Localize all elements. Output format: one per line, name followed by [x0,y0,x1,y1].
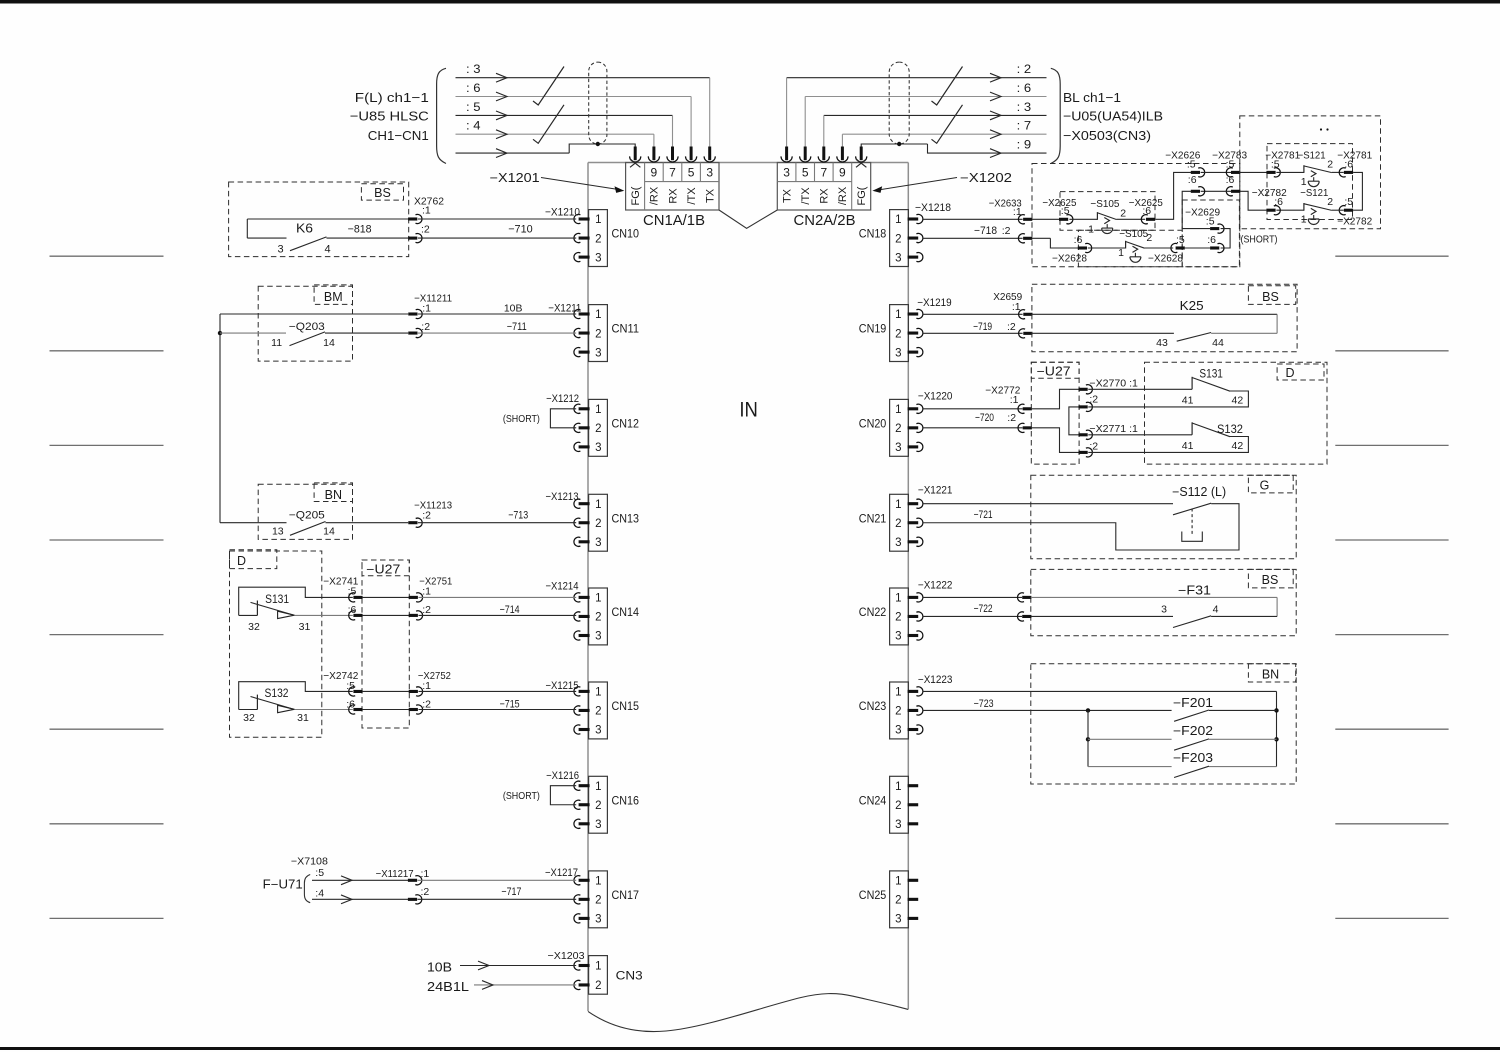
Q205 contact blade [290,522,326,536]
svg-text:BL ch1−1: BL ch1−1 [1063,90,1121,105]
wire X2771.1 to S132r [1088,434,1192,436]
CN14 pin sockets [574,593,580,602]
svg-text:−X1212: −X1212 [546,393,579,405]
junction dots right bus [1274,708,1278,712]
S132 actuator triangle [278,705,295,712]
U27 internal jog pin2 [1032,428,1079,453]
connector X2782:5 [1339,206,1345,215]
svg-text::6: :6 [346,699,355,711]
svg-text::5: :5 [1226,159,1235,171]
K25 top wire [1032,313,1277,315]
svg-text:CN13: CN13 [612,513,640,525]
wire F203 feed [1088,766,1172,768]
CN1A top pins (plug and socket) [634,147,637,161]
wire X7108.4 to X11217 [312,898,408,900]
svg-text:2: 2 [595,895,601,907]
svg-text:−X1219: −X1219 [917,297,952,309]
svg-text::2: :2 [422,604,431,616]
connector X2762 exit pins [408,217,417,220]
wire K6 to CN10.1 [418,218,576,220]
inner frame X2628 [1078,230,1182,267]
svg-text:−S121: −S121 [1300,187,1328,199]
svg-text:2: 2 [895,518,901,530]
left twisted pair mark 1 [533,67,564,106]
svg-text:2: 2 [1327,159,1333,171]
svg-text:−Q205: −Q205 [289,510,325,522]
svg-text:−X1210: −X1210 [545,207,580,219]
wire -715 to CN15.2 [419,709,577,711]
svg-text::5: :5 [1271,159,1280,171]
svg-text:CN25: CN25 [859,890,887,902]
svg-text:−X1214: −X1214 [546,580,579,592]
svg-text:1: 1 [1118,247,1124,259]
svg-text::5: :5 [315,867,324,879]
svg-text::2: :2 [421,321,430,333]
svg-text:2: 2 [895,800,901,812]
svg-text:−710: −710 [508,224,533,236]
svg-text:CN18: CN18 [859,229,887,241]
svg-text:3: 3 [595,442,601,454]
wire S105a to X2625:6 [1116,218,1145,220]
connector CN3 [589,956,608,995]
wire CN19.2 to X2659 [923,332,1023,334]
svg-text::5: :5 [346,680,355,692]
svg-text:7: 7 [820,166,827,180]
U27 internal wires CN14 [362,596,409,598]
connector CN1A/1B body [626,163,719,211]
svg-text:−X2771 :1: −X2771 :1 [1089,423,1138,435]
svg-text:−X1222: −X1222 [918,580,953,592]
svg-text:−818: −818 [348,224,372,236]
wire CN21.1 to S112 [923,503,1173,505]
svg-text:2: 2 [595,233,601,245]
svg-text:CN2A/2B: CN2A/2B [794,212,856,229]
S131 right terminal post [1191,377,1193,390]
svg-text:1: 1 [895,214,901,226]
wire CN20.2 to X2772 [923,427,1023,429]
wire to S105a [1069,218,1097,220]
connector X2625:6 [1141,215,1147,224]
svg-text:K25: K25 [1180,299,1204,313]
connector X2628:5 [1171,243,1177,252]
svg-text::1: :1 [422,585,431,597]
svg-text:4: 4 [324,243,330,255]
svg-text:TX: TX [705,188,717,203]
svg-text::6: :6 [1207,234,1216,246]
svg-text:13: 13 [272,526,284,538]
svg-text:24B1L: 24B1L [427,980,469,994]
CN25 pins [908,879,919,882]
wire left bus down [1087,710,1089,766]
connector X2781:6 [1339,168,1345,177]
svg-text::1: :1 [422,204,431,216]
svg-text:3: 3 [595,914,601,926]
svg-text:F−U71: F−U71 [263,877,303,891]
svg-text::1: :1 [421,868,430,880]
svg-text:S131: S131 [1199,368,1223,380]
svg-text:CN19: CN19 [859,324,887,336]
svg-text::2: :2 [421,224,430,236]
svg-text:11: 11 [271,337,282,349]
svg-text:BN: BN [1262,668,1279,682]
S132 right blade [1192,423,1230,437]
connector X2628:6 [1078,246,1087,249]
svg-text:−U85 HLSC: −U85 HLSC [350,108,429,123]
svg-text:−X1221: −X1221 [918,485,953,497]
svg-text::2: :2 [1089,394,1098,406]
svg-text:−X2781: −X2781 [1337,150,1372,162]
svg-text:CN1A/1B: CN1A/1B [643,212,705,229]
svg-text::2: :2 [1007,321,1016,333]
connector X2626:5 [1191,171,1200,174]
left cable brace [437,68,446,163]
connector CN18 [890,210,909,267]
CN19 pin sockets [908,312,919,315]
CN15 pin sockets [574,687,580,696]
wire S132r out [1088,437,1248,453]
S112 actuator dashed link [1191,509,1193,535]
svg-text:1: 1 [895,687,901,699]
connector CN14 [589,588,608,645]
connector X2752 exit pins [409,690,418,693]
svg-text::1: :1 [422,303,431,315]
U27 internal jog pin1 [1032,389,1079,409]
svg-text:: 3: : 3 [1017,100,1032,114]
wire -710 to CN10.2 [418,237,576,239]
CN21 pin sockets [908,502,919,505]
relay contact Q205 with BN frame [258,484,352,539]
svg-text:−U27: −U27 [1037,365,1071,379]
left margin fold ticks [50,255,164,257]
svg-text:−S121: −S121 [1298,150,1326,162]
svg-text::6: :6 [1074,234,1083,246]
svg-text::6: :6 [1274,196,1283,208]
svg-text::2: :2 [1089,440,1098,452]
CN11 pin sockets [574,309,580,318]
connector X2633:2 entry pin [1018,234,1024,243]
svg-text:RX: RX [819,188,831,204]
CN12 pin sockets [574,404,580,413]
svg-text::6: :6 [1142,205,1151,217]
svg-text:: 5: : 5 [466,100,481,114]
K25 right link [1276,314,1278,333]
wire F203 out [1209,766,1277,768]
svg-text:G: G [1260,479,1270,493]
svg-text::6: :6 [348,604,357,616]
BS frame label box 2 [1248,286,1295,305]
svg-text:3: 3 [895,914,901,926]
svg-text:−F203: −F203 [1173,751,1213,765]
enclosure -U27 right [1031,362,1079,464]
svg-text:CN10: CN10 [612,229,640,241]
svg-text:: 3: : 3 [466,62,481,76]
svg-text:−F202: −F202 [1173,724,1213,738]
frame dashed box D right [1145,362,1328,464]
svg-text:1: 1 [895,404,901,416]
page top border [0,0,1500,4]
svg-text:CN23: CN23 [859,701,887,713]
svg-text:CN15: CN15 [612,701,640,713]
svg-text:F(L) ch1−1: F(L) ch1−1 [355,90,429,105]
svg-text::5: :5 [1061,205,1070,217]
F31 top wire [1031,596,1277,598]
connector X11211 exit pins [408,312,417,315]
wire 10B label segment [418,313,576,315]
svg-text:: 2: : 2 [1017,62,1032,76]
svg-text:2: 2 [595,980,601,992]
svg-text:−X7108: −X7108 [291,855,328,867]
svg-text:−S105: −S105 [1090,198,1119,210]
wire X2752.1 to CN15.1 [419,690,577,692]
connector X2783:6 [1226,187,1232,196]
F31 contact blade [1173,616,1211,628]
wire row B to v2 down [1182,191,1210,228]
svg-text:41: 41 [1182,395,1194,407]
S131 right blade [1192,378,1230,392]
svg-text:1: 1 [595,781,601,793]
svg-text:S132: S132 [265,688,289,700]
svg-text:1: 1 [1301,214,1307,226]
wire to CN17.1 [418,879,577,881]
svg-text:FG(: FG( [856,186,868,205]
svg-text:42: 42 [1232,440,1244,452]
svg-text:3: 3 [895,725,901,737]
wire -711 to CN11.2 [418,332,576,334]
svg-text:1: 1 [895,499,901,511]
svg-text:: 9: : 9 [1017,138,1032,152]
module IN outline [588,162,908,164]
right cable brace [1051,68,1060,163]
connector X11213 exit pin [408,521,417,524]
wire S105b to X2628:5 [1145,247,1174,249]
svg-text:−717: −717 [501,886,521,898]
svg-text:3: 3 [895,347,901,359]
svg-text:−X1211: −X1211 [548,303,581,315]
wire X2751.1 to CN14.1 [419,596,577,598]
S132 right terminal post [1191,422,1193,435]
svg-text:CN17: CN17 [612,890,640,902]
svg-text:2: 2 [1120,207,1126,219]
svg-text::2: :2 [422,510,431,522]
connector X2783:5 [1226,168,1232,177]
svg-text:1: 1 [595,961,601,973]
svg-text:2: 2 [595,706,601,718]
right twisted pair mark 1 [932,67,963,106]
frame dashed box BS F31 [1031,569,1296,635]
svg-text:1: 1 [895,781,901,793]
svg-text:3: 3 [595,252,601,264]
svg-text:1: 1 [1088,223,1094,235]
svg-text:/RX: /RX [837,186,849,205]
wire CN19.1 to X2659 [923,313,1023,315]
svg-text::5: :5 [348,585,357,597]
connector CN15 [589,682,608,739]
right margin fold ticks [1335,255,1448,257]
svg-text:/RX: /RX [649,186,661,205]
svg-text:44: 44 [1212,337,1224,349]
svg-text:1: 1 [895,876,901,888]
left shield junction dot [596,142,600,146]
frame dashed box G [1031,475,1296,559]
wire S131r out [1088,391,1248,407]
wire X2782:6 to S121b [1276,209,1304,211]
enclosure -U27 left [362,560,409,728]
svg-text::2: :2 [1002,225,1011,237]
connector CN2A/2B body [777,163,870,211]
svg-text:1: 1 [595,404,601,416]
connector CN11 [589,305,608,362]
CN24 pins [908,784,919,787]
svg-text:32: 32 [248,621,260,633]
svg-text:2: 2 [895,233,901,245]
svg-text:−U27: −U27 [366,563,400,577]
page bottom border [0,1047,1500,1050]
K25 contact blade [1177,333,1211,342]
relay contact K6 with BS frame [229,182,409,257]
svg-text:/TX: /TX [800,187,812,205]
CN16 short jumper [550,786,576,805]
svg-text:5: 5 [802,166,809,180]
svg-text:−720: −720 [975,412,994,424]
CN2A top pins (plug and socket) [785,147,788,161]
svg-text:−723: −723 [974,698,994,710]
CN18 pin sockets [908,217,919,220]
wire 10B to CN11.1 [220,313,408,315]
connector CN19 [890,305,909,362]
svg-text:14: 14 [323,526,335,538]
switch S105 upper [1096,212,1098,220]
wire K6.4 to X2762 [327,237,409,239]
connector X11217 exit pins [408,879,417,882]
connector X2629:6 [1210,246,1219,249]
left cable shield ellipse [589,62,607,144]
feed wire 10B vertical [219,314,221,523]
relay contact Q203 with BM frame [258,286,352,361]
wire F202 feed [1088,738,1172,740]
svg-text:7: 7 [669,166,676,180]
svg-text::5: :5 [1344,196,1353,208]
svg-text:2: 2 [595,328,601,340]
CN10 pin sockets [574,214,580,223]
svg-text:(SHORT): (SHORT) [503,790,540,802]
svg-text:CN16: CN16 [612,795,640,807]
K6 left link [246,219,248,238]
BM frame label box [314,285,352,305]
svg-text:3: 3 [1161,604,1167,616]
svg-text:(SHORT): (SHORT) [1241,234,1278,246]
svg-text:−X0503(CN3): −X0503(CN3) [1063,128,1151,143]
wire into S121 box row A [1240,171,1267,173]
svg-text:2: 2 [895,706,901,718]
svg-text:−F31: −F31 [1178,584,1211,598]
Q203 terminal 11 wire [220,332,286,334]
K6 contact blade [290,237,327,251]
wire -718 to jog [923,237,1023,239]
svg-text:FG(: FG( [630,186,642,205]
wire riser to row A [1155,172,1191,219]
svg-text:3: 3 [895,631,901,643]
connector F31 entry pins [1018,593,1024,602]
svg-text:42: 42 [1232,395,1244,407]
svg-text:CN11: CN11 [612,324,640,336]
wire X2629 jumper [1221,229,1231,248]
svg-text:−714: −714 [500,604,520,616]
svg-text:−711: −711 [507,321,527,333]
svg-text:−X1203: −X1203 [548,950,585,962]
BS label box 3 [1248,569,1293,588]
CN20 pin sockets [908,407,919,410]
svg-text:BN: BN [325,488,342,502]
S131 terminal 32 link [239,614,258,616]
svg-text::1: :1 [1010,394,1019,406]
svg-text:3: 3 [706,166,713,180]
svg-text:3: 3 [595,631,601,643]
svg-text:5: 5 [688,166,695,180]
svg-text:−X1201: −X1201 [490,171,540,185]
S132 contact blade [251,697,295,710]
connector X2781:5 [1266,171,1275,174]
svg-text:IN: IN [739,398,758,421]
svg-text:3: 3 [895,537,901,549]
svg-text:1: 1 [595,499,601,511]
svg-text:−Q203: −Q203 [289,321,325,333]
connector CN16 [589,776,608,833]
U27 right label box [1031,362,1079,378]
connector X2629:5 [1210,227,1219,230]
svg-text::5: :5 [1206,216,1215,228]
left shield drain wire [456,152,570,154]
module IN bottom break wave [588,994,908,1032]
svg-text::1: :1 [422,680,431,692]
svg-text:2: 2 [595,518,601,530]
fuse F201 blade [1174,710,1209,721]
wire right loop down [1353,172,1362,210]
svg-text:−F201: −F201 [1173,696,1213,710]
svg-text:3: 3 [895,442,901,454]
harness frame dashed box S105 cluster [1032,164,1240,267]
svg-text:−X1215: −X1215 [546,680,579,692]
wire jog down [1050,238,1078,248]
wire -714 to CN14.2 [419,614,577,616]
svg-text:2: 2 [595,800,601,812]
junction dots left bus [1086,708,1090,712]
svg-text:−X2770 :1: −X2770 :1 [1089,377,1138,389]
svg-text:: 6: : 6 [1017,81,1032,95]
svg-text::1: :1 [1013,206,1022,218]
svg-text:: 6: : 6 [466,81,481,95]
S131 terminal 32 post [256,601,258,616]
svg-text:CN20: CN20 [859,418,887,430]
CN2A FG pin cross [856,159,866,167]
svg-text:−X1202: −X1202 [960,171,1012,185]
svg-text:1: 1 [595,214,601,226]
svg-text::2: :2 [422,699,431,711]
wire X2628:5 to X2629:6 [1185,247,1211,249]
F31 right link [1276,597,1278,616]
wire Q205.14 to X11213 [326,522,409,524]
svg-text:3: 3 [595,819,601,831]
U27 internal link X2770:2-X2771:1 [1069,407,1079,435]
svg-text::2: :2 [1007,412,1016,424]
CN12 short jumper [550,409,576,428]
svg-text:41: 41 [1182,440,1194,452]
svg-text:9: 9 [839,166,846,180]
inner frame X2629 [1182,200,1239,267]
switch S121 upper [1303,165,1305,173]
left twisted pair mark 2 [533,105,564,144]
S132 wire loop [239,682,353,710]
svg-text:−718: −718 [974,225,997,237]
